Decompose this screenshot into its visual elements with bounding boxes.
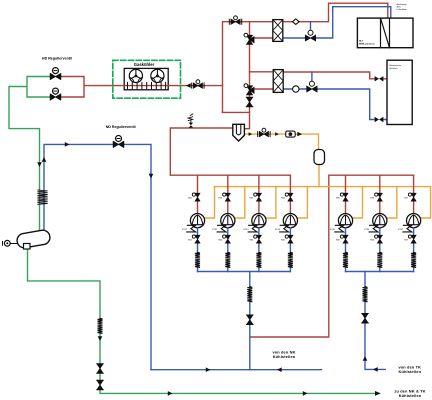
wire oil feed TK compressor	[353, 187, 363, 218]
check valve circle HX2	[293, 86, 299, 92]
three-way valve HX1	[244, 33, 254, 44]
wire red TK discharge header to NK suction	[251, 175, 414, 337]
svg-text:Gaskühler: Gaskühler	[134, 62, 155, 67]
internal heat exchanger coil	[38, 190, 47, 204]
svg-text:Kühlstellen: Kühlstellen	[398, 369, 421, 374]
valve HV452	[336, 235, 348, 243]
svg-text:KT45: KT45	[330, 229, 336, 231]
flow arrow oil line 2	[275, 132, 279, 136]
flow arrow liquid line down	[37, 162, 42, 167]
label von den NK Kühlstellen	[272, 350, 295, 359]
svg-text:H47: H47	[404, 239, 409, 241]
coil liquid supply drop	[98, 318, 103, 333]
valve discharge riser top	[229, 16, 241, 25]
wire oil distribution header	[215, 186, 431, 188]
svg-text:H43: H43	[249, 197, 254, 199]
wire blue suction below compressor 43	[258, 228, 260, 272]
svg-text:Kühlstellen: Kühlstellen	[399, 393, 422, 398]
valve gas cooler line	[192, 80, 204, 89]
wire red HX1 lower port	[252, 37, 273, 39]
flow arrow ND drop down	[149, 174, 154, 179]
wire blue TK suction header	[346, 271, 414, 273]
valve TK suction drop	[362, 313, 369, 323]
gas cooler finned tube	[124, 85, 168, 87]
mixing valve HX2 water	[307, 81, 317, 92]
wire red HX2 upper port	[250, 71, 274, 73]
safety valve discharge header	[188, 114, 193, 128]
flow arrow liquid supply end	[375, 391, 381, 396]
receiver oil drain fitting	[3, 240, 18, 246]
wire oil feed NK compressor	[205, 187, 215, 218]
wire oil feed TK compressor	[387, 187, 397, 218]
compressor V47	[398, 214, 421, 232]
wire blue suction below compressor 46	[379, 228, 381, 272]
compressor V44	[275, 214, 298, 232]
warm water storage tank	[387, 60, 412, 124]
wire oil feed NK compressor	[235, 187, 245, 218]
svg-text:H43: H43	[249, 239, 254, 241]
svg-text:H46: H46	[370, 239, 375, 241]
wire red discharge drop compressor 42	[227, 175, 229, 213]
svg-text:H41: H41	[188, 197, 193, 199]
svg-text:H45: H45	[336, 239, 341, 241]
check valve diamond HX1	[293, 19, 300, 24]
flow arrow gas cooler outlet	[186, 83, 191, 88]
valve HV472	[404, 235, 416, 243]
wire blue HX1 outlet to air heater return	[283, 7, 391, 38]
valve HV422	[218, 235, 230, 243]
wire blue suction below compressor 42	[227, 228, 229, 272]
note text air heater	[397, 3, 408, 11]
oil receiver	[314, 150, 325, 165]
valve NK suction drop	[247, 315, 254, 325]
plate heat exchanger HX1	[273, 20, 283, 42]
wire red discharge drop compressor 45	[345, 175, 347, 213]
valve HV421	[218, 193, 230, 201]
wire blue HX1 mixing valve stem	[310, 22, 312, 33]
svg-text:H42: H42	[218, 197, 223, 199]
vibration coil compressor 43	[256, 252, 261, 267]
valve tank supply	[375, 76, 384, 81]
wire red HX1 outlet to air heater	[283, 3, 388, 22]
gas cooler fan housing	[124, 68, 168, 89]
sight glass oil line	[286, 131, 296, 137]
wire red discharge drop compressor 43	[258, 175, 260, 213]
wire blue NK suction header	[198, 271, 291, 273]
valve HV442	[281, 235, 293, 243]
svg-text:H44: H44	[281, 197, 286, 199]
flow arrow TK suction up	[363, 356, 368, 361]
svg-text:KT41: KT41	[182, 229, 188, 231]
three-way valve HX2	[244, 84, 254, 95]
wire blue HX2 outlet to water tank return	[283, 89, 387, 120]
valve HV431	[249, 193, 261, 201]
vibration coil compressor 41	[195, 252, 200, 267]
flow arrow liquid supply 2	[303, 391, 308, 396]
svg-text:Warmwasser: Warmwasser	[389, 64, 401, 67]
flow arrow liquid supply 1	[168, 391, 173, 396]
wire red NK discharge header and oil separator feed	[170, 128, 290, 175]
svg-text:Kühlstellen: Kühlstellen	[273, 354, 296, 359]
wire blue suction below compressor 45	[345, 228, 347, 272]
wire green liquid from HD valves	[9, 77, 50, 235]
wire blue suction below compressor 41	[197, 228, 199, 272]
svg-text:KT46: KT46	[364, 229, 370, 231]
valve HV461	[370, 193, 382, 201]
label von den TK Kühlstellen	[398, 365, 421, 374]
valve liquid supply 1	[97, 364, 104, 374]
valve HV451	[336, 193, 348, 201]
flow arrow flash gas line	[65, 142, 70, 147]
wire red discharge drop compressor 47	[413, 175, 415, 213]
svg-text:H45: H45	[336, 197, 341, 199]
wire red HD valve outlets to gas cooler line	[61, 77, 223, 98]
wire red riser to bypass link	[223, 111, 250, 113]
svg-text:KT42: KT42	[212, 229, 218, 231]
valve HV471	[404, 193, 416, 201]
wire blue NK suction drop	[249, 272, 251, 370]
vibration coil compressor 42	[225, 252, 230, 267]
svg-text:H47: H47	[404, 197, 409, 199]
wire oil line from separator to oil receiver	[244, 134, 318, 149]
compressor V41	[182, 214, 205, 232]
svg-text:H42: H42	[218, 239, 223, 241]
valve tank return	[375, 117, 384, 122]
wire blue HX2 mixing valve stem	[311, 72, 313, 84]
wire red heat-recovery bypass drop	[245, 22, 250, 129]
coil NK suction drop	[247, 287, 252, 302]
flow arrow TK return	[373, 367, 378, 372]
flow arrow bottom return left	[277, 367, 282, 372]
wire blue suction below compressor 47	[413, 228, 415, 272]
wire blue TK suction drop	[365, 272, 385, 370]
flow arrow oil line 3	[297, 132, 302, 137]
svg-text:Lufterhitzer: Lufterhitzer	[397, 8, 408, 11]
valve HD regulator 1	[50, 68, 60, 80]
svg-text:Speicher: Speicher	[389, 67, 398, 70]
flow arrow oil line 1	[249, 132, 253, 136]
valve liquid supply 2	[97, 380, 104, 390]
gas cooler dashed enclosure	[113, 60, 181, 98]
vibration coil compressor 45	[343, 252, 348, 267]
wire red discharge drop compressor 41	[197, 175, 199, 213]
wire green receiver outlet to bottom manifold	[28, 247, 380, 394]
valve ND regulator	[113, 136, 123, 148]
vibration coil compressor 47	[411, 252, 416, 267]
wire oil receiver to distribution header	[318, 165, 320, 187]
liquid receiver vessel	[16, 229, 51, 249]
wire red discharge drop compressor 44	[289, 175, 291, 213]
gas cooler fan	[151, 69, 164, 82]
svg-text:H46: H46	[370, 197, 375, 199]
compressor V42	[212, 214, 235, 232]
vibration coil compressor 44	[288, 252, 293, 267]
compressor V45	[330, 214, 353, 232]
svg-text:HD Regulierventil: HD Regulierventil	[42, 57, 72, 61]
wire oil feed TK compressor	[421, 187, 431, 218]
wire blue suction return header bottom	[151, 369, 322, 371]
wire oil feed NK compressor	[266, 187, 276, 218]
svg-text:H44: H44	[281, 239, 286, 241]
gas cooler fan	[129, 69, 142, 82]
solenoid valve oil line	[258, 128, 270, 137]
valve HV432	[249, 235, 261, 243]
wire blue flash-gas line with ND valve	[44, 144, 151, 369]
plate heat exchanger HX2	[273, 70, 283, 93]
valve HV411	[188, 193, 200, 201]
compressor V46	[364, 214, 387, 232]
valve bypass lower	[246, 97, 253, 107]
svg-text:KT43: KT43	[243, 229, 249, 231]
wire red discharge drop compressor 46	[379, 175, 381, 213]
wire oil feed NK compressor	[298, 187, 308, 218]
svg-text:KT44: KT44	[275, 229, 281, 231]
air heater unit	[357, 18, 413, 48]
svg-text:WW/Lufterhitzer: WW/Lufterhitzer	[359, 43, 375, 46]
coil TK suction drop	[363, 287, 368, 302]
flow arrow bottom return right	[206, 367, 211, 372]
wire red HX2 outlet to water tank	[283, 72, 387, 79]
wire red HX2 lower port	[252, 88, 273, 90]
valve HV441	[281, 193, 293, 201]
flow arrow liquid drop down	[98, 336, 103, 341]
valve HD regulator 2	[50, 88, 60, 100]
label zu den NK TK Kühlstellen	[394, 389, 425, 398]
wire blue suction below compressor 44	[289, 228, 291, 272]
vibration coil compressor 46	[377, 252, 382, 267]
valve HV412	[188, 235, 200, 243]
mixing valve HX1 water	[305, 30, 315, 41]
compressor V43	[243, 214, 266, 232]
valve HV462	[370, 235, 382, 243]
svg-text:Auslegung: Auslegung	[397, 3, 408, 6]
wire red main discharge riser	[223, 22, 274, 113]
oil separator vessel	[233, 124, 245, 141]
svg-text:KT47: KT47	[398, 229, 404, 231]
receiver outlet sump	[24, 244, 31, 250]
flow arrow suction riser up	[42, 157, 47, 162]
svg-text:H41: H41	[188, 239, 193, 241]
svg-text:ND Regulierventil: ND Regulierventil	[106, 125, 136, 129]
